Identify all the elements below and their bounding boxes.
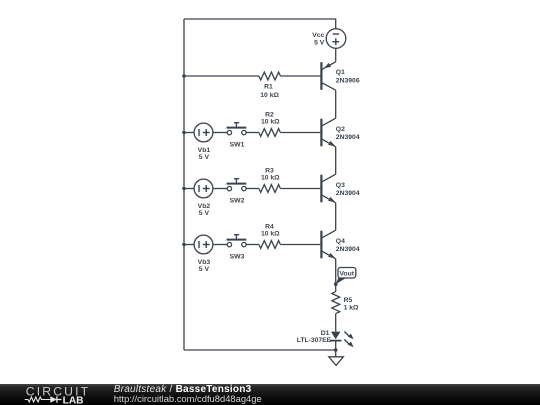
voltage source Vb3 xyxy=(194,235,213,254)
svg-text:R2: R2 xyxy=(265,112,274,119)
wire SW1 to R2 xyxy=(246,132,259,134)
svg-text:2N3904: 2N3904 xyxy=(336,190,360,197)
svg-text:2N3904: 2N3904 xyxy=(336,134,360,141)
wire Vb2 to SW2 xyxy=(213,188,227,190)
node junction Vout xyxy=(334,282,338,286)
svg-text:10 kΩ: 10 kΩ xyxy=(261,119,280,126)
svg-text:R4: R4 xyxy=(265,224,274,231)
wire R2 to Q2 base xyxy=(280,132,320,134)
svg-text:LAB: LAB xyxy=(63,396,84,405)
logo diode xyxy=(50,396,61,402)
transistor Q2 xyxy=(321,118,335,147)
node junction at Vb1 row xyxy=(182,131,186,135)
node junction LED bottom xyxy=(334,348,338,352)
node Vout flag xyxy=(336,268,356,285)
svg-text:5 V: 5 V xyxy=(199,154,210,161)
svg-text:Q2: Q2 xyxy=(336,126,345,133)
resistor R1 xyxy=(259,72,281,80)
wire bottom rail xyxy=(184,349,336,351)
switch SW2 xyxy=(227,179,247,191)
diode D1 LED xyxy=(330,332,354,348)
wire R4 to Q4 base xyxy=(280,244,320,246)
resistor R3 xyxy=(259,185,281,193)
svg-text:http://circuitlab.com/cdfu8d48: http://circuitlab.com/cdfu8d48ag4ge xyxy=(114,393,262,404)
svg-text:2N3904: 2N3904 xyxy=(336,246,360,253)
wire Q1 collector to Q2 collector xyxy=(335,90,337,118)
wire R1 to Q1 base xyxy=(280,75,320,77)
wire Q4 emitter to R5 xyxy=(335,259,337,292)
footer bar xyxy=(0,384,540,405)
svg-text:SW1: SW1 xyxy=(230,142,245,149)
svg-text:1 kΩ: 1 kΩ xyxy=(344,305,359,312)
svg-text:R3: R3 xyxy=(265,168,274,175)
node junction at Vb2 row xyxy=(182,187,186,191)
svg-text:R5: R5 xyxy=(344,297,353,304)
switch SW1 xyxy=(227,123,247,135)
svg-text:SW2: SW2 xyxy=(230,198,245,205)
svg-text:10 kΩ: 10 kΩ xyxy=(261,231,280,238)
svg-text:10 kΩ: 10 kΩ xyxy=(260,92,279,99)
resistor R5 xyxy=(332,292,340,314)
svg-text:D1: D1 xyxy=(321,330,330,337)
transistor Q3 xyxy=(321,174,335,203)
resistor R4 xyxy=(259,241,281,249)
svg-text:R1: R1 xyxy=(264,84,273,91)
wire D1 to bottom node xyxy=(335,341,337,350)
wire top rail xyxy=(184,19,336,29)
svg-text:Q3: Q3 xyxy=(336,182,345,189)
resistor R2 xyxy=(259,129,281,137)
wire Q3 emitter to Q4 collector xyxy=(335,203,337,230)
svg-text:Vb3: Vb3 xyxy=(198,259,211,266)
ground xyxy=(329,357,344,366)
wire Vb3 left lead xyxy=(184,244,194,246)
wire Vcc to Q1 emitter xyxy=(335,48,337,62)
svg-text:Vb2: Vb2 xyxy=(198,203,211,210)
wire left rail xyxy=(183,19,185,350)
svg-text:Q1: Q1 xyxy=(336,69,345,76)
svg-text:2N3906: 2N3906 xyxy=(336,77,360,84)
svg-text:LTL-307EE: LTL-307EE xyxy=(297,337,332,344)
voltage source Vb1 xyxy=(194,123,213,142)
svg-text:5 V: 5 V xyxy=(199,266,210,273)
wire ground stub xyxy=(335,350,337,357)
transistor Q4 xyxy=(321,230,335,259)
svg-text:SW3: SW3 xyxy=(230,254,245,261)
svg-text:Vcc: Vcc xyxy=(312,32,324,39)
svg-text:Vb1: Vb1 xyxy=(198,147,211,154)
transistor Q1 xyxy=(321,62,335,90)
svg-text:Q4: Q4 xyxy=(336,238,345,245)
node junction at R1 row xyxy=(182,74,186,78)
wire SW3 to R4 xyxy=(246,244,259,246)
wire R3 to Q3 base xyxy=(280,188,320,190)
wire Q2 emitter to Q3 collector xyxy=(335,147,337,174)
wire Vb3 to SW3 xyxy=(213,244,227,246)
wire Vb1 to SW1 xyxy=(213,132,227,134)
svg-text:10 kΩ: 10 kΩ xyxy=(261,175,280,182)
logo resistor zigzag xyxy=(25,397,51,402)
switch SW3 xyxy=(227,235,247,247)
wire R1 left lead xyxy=(184,75,259,77)
wire R5 to D1 xyxy=(335,314,337,332)
wire Vb1 left lead xyxy=(184,132,194,134)
wire Vb2 left lead xyxy=(184,188,194,190)
svg-text:5 V: 5 V xyxy=(314,39,325,46)
node junction at Vb3 row xyxy=(182,243,186,247)
voltage source Vcc xyxy=(326,29,346,49)
svg-text:Vout: Vout xyxy=(339,271,354,278)
svg-text:5 V: 5 V xyxy=(199,210,210,217)
wire SW2 to R3 xyxy=(246,188,259,190)
voltage source Vb2 xyxy=(194,179,213,198)
